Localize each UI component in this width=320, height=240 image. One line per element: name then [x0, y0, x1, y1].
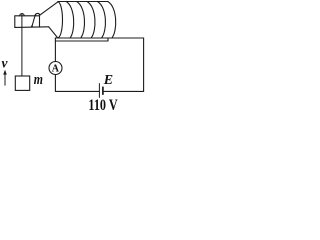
svg-text:110 V: 110 V	[88, 97, 118, 112]
svg-text:A: A	[52, 64, 60, 75]
svg-text:m: m	[34, 72, 43, 88]
svg-text:v: v	[2, 55, 9, 70]
svg-text:E: E	[103, 73, 113, 88]
